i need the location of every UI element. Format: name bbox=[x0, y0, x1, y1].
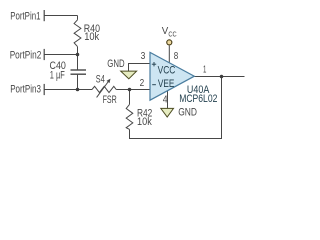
svg-text:1 µF: 1 µF bbox=[50, 70, 65, 82]
svg-text:PortPin1: PortPin1 bbox=[10, 11, 40, 23]
svg-text:PortPin2: PortPin2 bbox=[10, 49, 42, 61]
svg-text:GND: GND bbox=[107, 58, 125, 70]
svg-text:10k: 10k bbox=[137, 116, 152, 128]
svg-text:CC: CC bbox=[168, 30, 176, 39]
svg-text:VCC: VCC bbox=[158, 65, 176, 77]
svg-text:PortPin3: PortPin3 bbox=[10, 84, 41, 96]
svg-text:3: 3 bbox=[141, 51, 146, 62]
svg-text:FSR: FSR bbox=[103, 94, 117, 106]
svg-text:4: 4 bbox=[163, 94, 168, 105]
svg-text:2: 2 bbox=[140, 78, 145, 89]
svg-text:GND: GND bbox=[178, 107, 197, 119]
svg-text:S4: S4 bbox=[96, 74, 105, 86]
svg-text:8: 8 bbox=[174, 51, 179, 62]
svg-text:MCP6L02: MCP6L02 bbox=[179, 93, 217, 105]
svg-text:10k: 10k bbox=[84, 31, 100, 43]
svg-text:V: V bbox=[162, 26, 169, 37]
svg-text:VEE: VEE bbox=[158, 78, 175, 90]
svg-text:1: 1 bbox=[203, 65, 207, 76]
